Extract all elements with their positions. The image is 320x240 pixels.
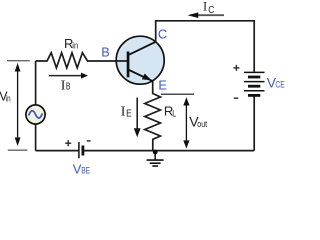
svg-text:out: out	[197, 119, 207, 130]
svg-text:L: L	[172, 108, 176, 119]
svg-text:B: B	[66, 82, 71, 93]
svg-text:C: C	[208, 5, 214, 16]
svg-text:in: in	[72, 40, 78, 50]
svg-text:C: C	[158, 27, 167, 42]
svg-text:I: I	[121, 105, 126, 120]
svg-text:in: in	[6, 93, 11, 103]
svg-text:CE: CE	[275, 80, 284, 91]
svg-text:E: E	[126, 108, 132, 119]
svg-text:B: B	[101, 45, 110, 60]
svg-text:BE: BE	[81, 166, 90, 177]
svg-text:I: I	[203, 0, 207, 14]
svg-text:E: E	[158, 78, 167, 93]
